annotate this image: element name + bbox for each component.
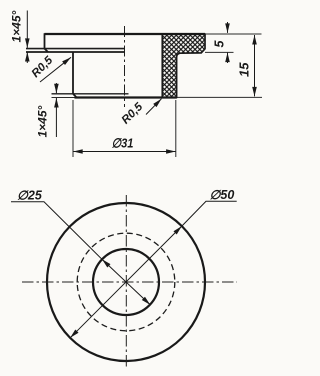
outer circle D50 [47,203,205,361]
dimension line D50 with arrows [70,226,182,338]
dimension 15 far right [254,35,256,96]
svg-text:1×45°: 1×45° [36,105,50,137]
flange underside line (left half) [26,51,125,53]
dimension line D25 with arrows [102,259,150,305]
svg-text:∅50: ∅50 [210,188,235,202]
extension line from flange top to 15 dim [205,33,262,35]
extension line from bottom to 15 dim [177,96,262,98]
svg-text:∅25: ∅25 [17,189,43,203]
leader D50 shoulder [182,201,237,226]
dimension 5 right: arrows [227,22,229,33]
leader R0,5 left: arrow line [40,57,71,82]
svg-text:∅31: ∅31 [112,135,134,150]
svg-text:15: 15 [237,62,252,77]
flange left edge with bottom chamfer [45,33,49,52]
chamfer edge line of flange [26,48,125,50]
leader D25 shoulder [11,202,102,259]
hatched section (non-metal crosshatch) [162,34,205,98]
svg-text:1×45°: 1×45° [10,10,24,42]
centerline axis of section view [124,26,126,107]
dimension 1x45 top-left: arrows [26,11,28,48]
horizontal centerline [22,281,237,283]
dimension line D31 [73,151,175,153]
svg-text:5: 5 [213,40,227,48]
body bottom edge line [52,97,75,99]
flange top edge line [45,33,206,35]
chamfer edge line of body bottom [52,93,129,95]
extension lines D31 [72,100,74,157]
extension line flange underside right [205,51,234,53]
body left edge with bottom chamfer [73,52,77,97]
dimension 1x45 lower-left: arrows [55,83,57,93]
vertical centerline [125,195,127,369]
inner circle D25 [93,249,159,315]
leader R0,5 middle: arrow line [146,99,162,115]
hidden circle D31 (dashed) [77,233,175,331]
